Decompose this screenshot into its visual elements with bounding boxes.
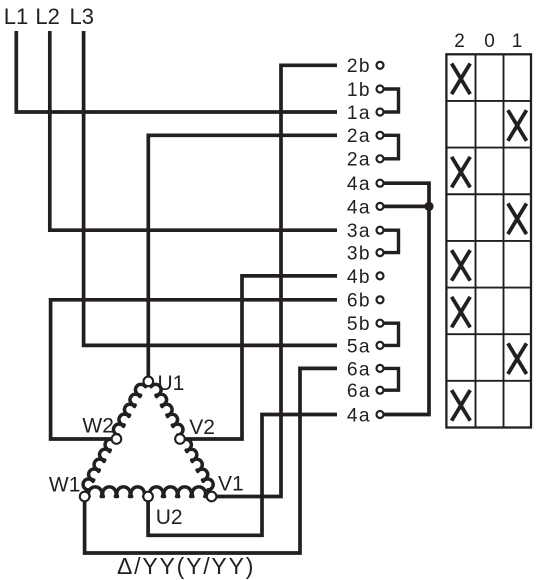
svg-text:0: 0 (484, 31, 495, 52)
svg-text:L1: L1 (4, 4, 28, 29)
svg-text:U2: U2 (156, 506, 183, 529)
svg-text:2a: 2a (347, 126, 371, 147)
svg-text:6a: 6a (347, 381, 371, 402)
svg-text:6a: 6a (347, 359, 371, 380)
svg-text:3b: 3b (347, 244, 371, 265)
svg-text:1b: 1b (347, 80, 371, 101)
svg-text:W2: W2 (82, 415, 114, 438)
svg-text:4a: 4a (347, 405, 371, 426)
svg-text:2: 2 (454, 31, 465, 52)
svg-text:V1: V1 (218, 473, 244, 496)
svg-text:V2: V2 (189, 416, 215, 439)
svg-text:2a: 2a (347, 150, 371, 171)
svg-text:L3: L3 (70, 4, 94, 29)
svg-text:3a: 3a (347, 221, 371, 242)
svg-text:Δ/YY(Y/YY): Δ/YY(Y/YY) (117, 553, 255, 579)
svg-text:5a: 5a (347, 336, 371, 357)
svg-text:1a: 1a (347, 103, 371, 124)
svg-text:1: 1 (512, 31, 523, 52)
svg-text:L2: L2 (35, 4, 59, 29)
svg-text:4b: 4b (347, 267, 371, 288)
svg-text:W1: W1 (49, 474, 81, 497)
svg-text:U1: U1 (158, 372, 185, 395)
svg-text:5b: 5b (347, 314, 371, 335)
svg-text:2b: 2b (347, 56, 371, 77)
svg-text:4a: 4a (347, 197, 371, 218)
svg-text:6b: 6b (347, 291, 371, 312)
svg-text:4a: 4a (347, 174, 371, 195)
